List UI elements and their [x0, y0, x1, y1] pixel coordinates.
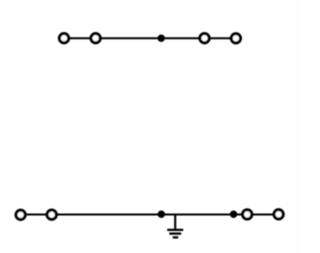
node: upper junction dot — [158, 35, 165, 42]
node: lower junction dot left — [158, 211, 165, 218]
terminal circle: lower clamp point 3 — [243, 210, 252, 219]
wire: lower level conductor — [21, 214, 279, 216]
terminal circle: lower clamp point 4 — [274, 210, 283, 219]
terminal circle: upper clamp point 4 — [231, 34, 240, 43]
terminal circle: lower clamp point 2 — [47, 210, 56, 219]
node: lower junction dot right — [230, 211, 237, 218]
terminal circle: upper clamp point 2 — [91, 34, 100, 43]
terminal circle: lower clamp point 1 — [16, 210, 25, 219]
ground — [167, 215, 183, 238]
terminal circle: upper clamp point 3 — [200, 34, 209, 43]
wire: upper level conductor — [64, 37, 236, 39]
terminal circle: upper clamp point 1 — [59, 34, 68, 43]
